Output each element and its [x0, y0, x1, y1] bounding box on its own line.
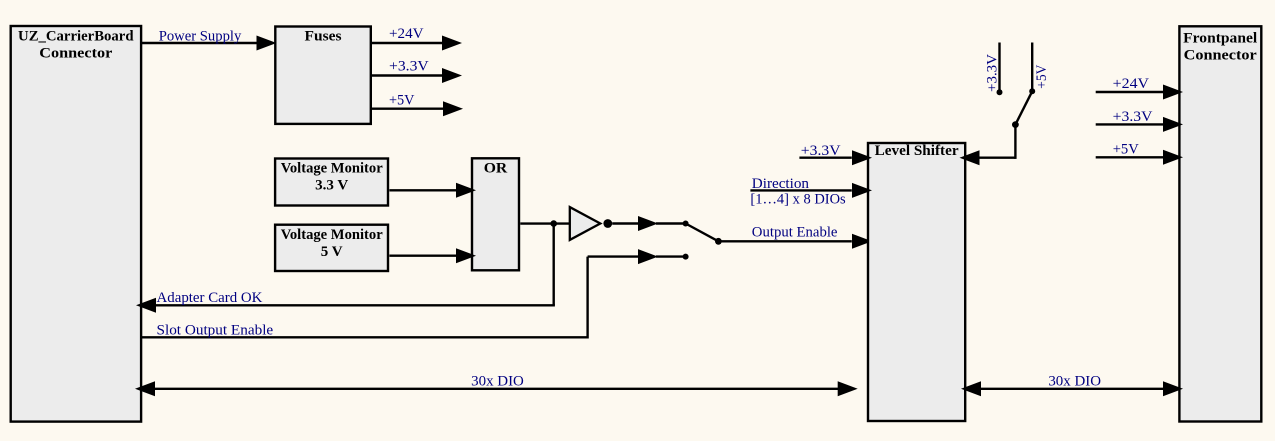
wire +3.3V supply stub to switch S2: [985, 43, 1003, 96]
svg-text:Output Enable: Output Enable: [752, 225, 838, 241]
svg-text:Connector: Connector: [1184, 48, 1257, 64]
gate U3 OR: [472, 158, 519, 270]
wire 30x DIO carrier to level shifter: [135, 373, 858, 396]
svg-text:+24V: +24V: [1113, 76, 1149, 92]
block U2 Voltage Monitor 5 V: [275, 225, 388, 271]
svg-text:Frontpanel: Frontpanel: [1183, 31, 1257, 47]
wire +24V to Frontpanel: [1096, 76, 1183, 99]
wire +24V fuse output: [372, 26, 462, 50]
wire 30x DIO level shifter to frontpanel: [961, 373, 1183, 396]
svg-text:+5V: +5V: [1113, 141, 1139, 157]
svg-text:Adapter Card OK: Adapter Card OK: [157, 290, 263, 306]
svg-text:OR: OR: [484, 161, 508, 177]
block U5 Level Shifter: [868, 143, 965, 421]
connector J2 Frontpanel: [1179, 26, 1261, 421]
svg-text:30x DIO: 30x DIO: [471, 373, 524, 389]
wire inverter to switch contact A: [612, 216, 685, 231]
svg-text:Voltage Monitor: Voltage Monitor: [281, 161, 383, 177]
svg-text:3.3 V: 3.3 V: [315, 178, 348, 194]
svg-text:+5V: +5V: [1034, 65, 1050, 89]
block U1 Voltage Monitor 3.3 V: [275, 159, 388, 206]
svg-text:+3.3V: +3.3V: [1113, 109, 1153, 125]
wire +5V to Frontpanel: [1096, 141, 1183, 164]
svg-text:Level Shifter: Level Shifter: [875, 143, 959, 159]
wire Output Enable: [718, 225, 872, 249]
svg-text:Voltage Monitor: Voltage Monitor: [281, 227, 383, 243]
switch S2 blade: [1015, 91, 1032, 124]
svg-text:+5V: +5V: [389, 92, 415, 108]
wire OR output: [520, 222, 570, 224]
wire +5V supply stub to switch S2: [1029, 43, 1050, 95]
switch S1 blade: [686, 224, 719, 242]
svg-text:Connector: Connector: [39, 46, 112, 62]
svg-text:Power Supply: Power Supply: [159, 29, 242, 45]
svg-text:[1…4] x 8 DIOs: [1…4] x 8 DIOs: [750, 192, 845, 208]
node switch common: [715, 238, 722, 245]
svg-text:5 V: 5 V: [321, 244, 343, 260]
node switch contact A: [683, 221, 689, 227]
node switch S2 common: [1012, 121, 1019, 128]
wire switch S2 to Level Shifter: [960, 125, 1016, 166]
svg-text:+3.3V: +3.3V: [389, 58, 429, 74]
connector J1 UZ_CarrierBoard: [11, 26, 141, 422]
svg-text:30x DIO: 30x DIO: [1048, 373, 1101, 389]
wire VM3.3 to OR: [389, 183, 476, 198]
svg-text:+3.3V: +3.3V: [801, 143, 841, 159]
wire +5V fuse output: [372, 92, 463, 116]
svg-text:Direction: Direction: [752, 176, 810, 192]
wire VM5 to OR: [389, 248, 476, 263]
svg-text:UZ_CarrierBoard: UZ_CarrierBoard: [18, 29, 134, 45]
wire +3.3V to Level Shifter: [799, 143, 872, 165]
svg-text:Fuses: Fuses: [305, 29, 342, 45]
block F1 Fuses: [275, 27, 371, 124]
wire Adapter Card OK: [136, 290, 555, 313]
wire Slot Output Enable: [142, 249, 686, 339]
wire +3.3V fuse output: [372, 58, 462, 83]
wire +3.3V to Frontpanel: [1096, 109, 1183, 132]
svg-text:+3.3V: +3.3V: [985, 54, 1001, 92]
node junction at OR output: [550, 220, 557, 227]
node switch contact B: [683, 254, 689, 260]
inverter U4: [570, 207, 612, 240]
svg-text:Slot Output Enable: Slot Output Enable: [157, 323, 274, 339]
wire Direction [1...4] x 8 DIOs: [750, 176, 872, 207]
svg-text:+24V: +24V: [389, 26, 424, 42]
wire Power Supply: [142, 29, 277, 51]
wire junction down: [553, 224, 555, 306]
